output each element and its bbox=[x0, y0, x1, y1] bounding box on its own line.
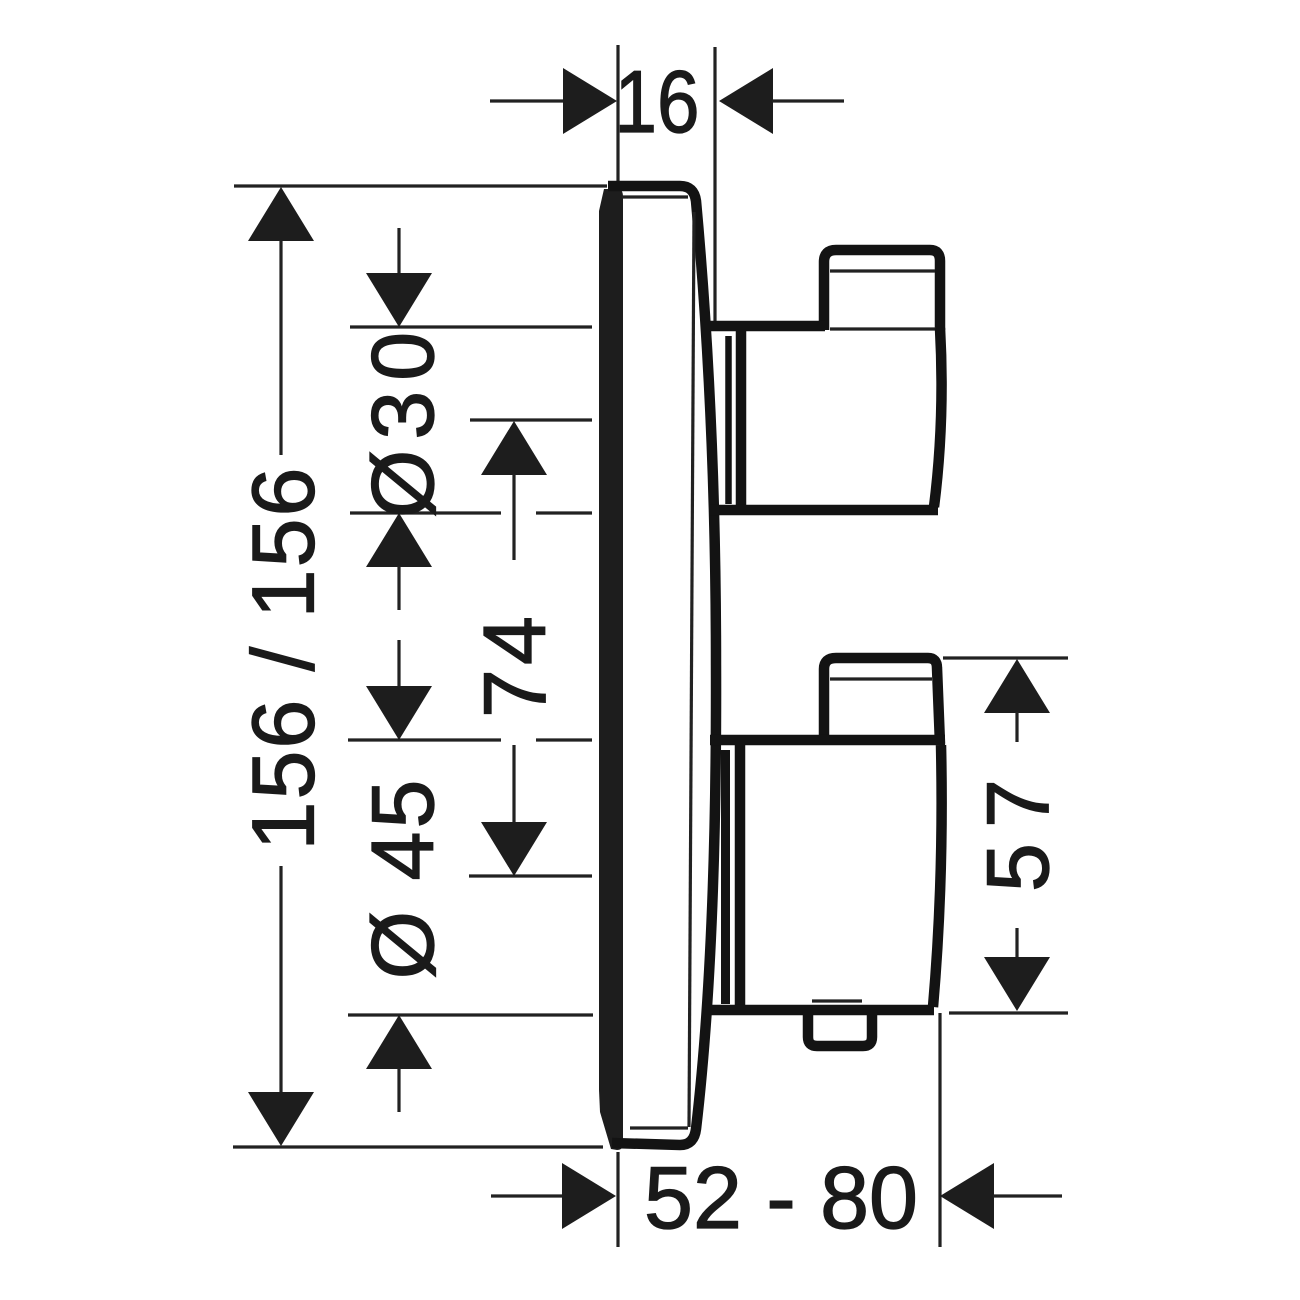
dim O45: bottom arrowhead bbox=[366, 1015, 432, 1069]
dim 52-80: right arrow tail bbox=[993, 1194, 1062, 1197]
dim O45: bottom arrow tail bbox=[397, 1068, 400, 1112]
dim O30: bottom boundary line (two segments) bbox=[350, 511, 592, 514]
dim 74: top boundary line bbox=[470, 418, 592, 421]
dim 57: bottom arrowhead bbox=[984, 957, 1050, 1011]
svg-text:156 / 156: 156 / 156 bbox=[234, 466, 333, 851]
dim 74: lower shaft bbox=[512, 745, 515, 823]
dim O45: bottom boundary line bbox=[348, 1013, 593, 1016]
top handle: body left edge bbox=[736, 331, 747, 506]
dim 52-80: left arrow tail bbox=[491, 1194, 563, 1197]
top handle: right edge bbox=[934, 328, 942, 507]
top handle: step outline bbox=[824, 250, 940, 330]
top handle: step inner thin line bbox=[830, 269, 935, 272]
dim 52-80: right extension line bbox=[938, 1013, 941, 1247]
dim 57: upper shaft bbox=[1015, 712, 1018, 742]
dim 74: upper shaft bbox=[512, 474, 515, 560]
top handle: neck thin line bbox=[725, 336, 732, 504]
bottom handle: right edge bbox=[933, 745, 942, 1007]
dim 156/156: upper shaft bbox=[279, 240, 282, 455]
dim 52-80: right arrowhead bbox=[940, 1163, 994, 1229]
dim O45: top boundary line (two segments) bbox=[348, 738, 592, 741]
bottom handle: body left edge bbox=[735, 745, 746, 1006]
dim O45: top arrow tail bbox=[397, 640, 400, 687]
bottom handle: neck thin line bbox=[721, 750, 730, 1004]
dim 52-80: left extension line bbox=[616, 1152, 619, 1247]
dim 16: left extension line bbox=[616, 45, 619, 181]
dim 16: right extension line bbox=[713, 47, 716, 327]
dim O30: top arrowhead bbox=[366, 273, 432, 327]
escutcheon plate: front face inner thin line bbox=[689, 212, 694, 1127]
dim 156/156: top arrowhead bbox=[248, 187, 314, 241]
dim 156/156: bottom extension line bbox=[233, 1145, 603, 1148]
dim 74: bottom arrowhead bbox=[481, 822, 547, 876]
escutcheon plate: inner thin line above bottom edge bbox=[630, 1126, 688, 1129]
top handle: body bottom edge bbox=[710, 505, 938, 516]
dim O30: bottom arrow tail bbox=[397, 566, 400, 610]
escutcheon plate: back rim band bbox=[599, 189, 623, 1150]
dim 74: bottom boundary line bbox=[469, 874, 592, 877]
svg-text:52 - 80: 52 - 80 bbox=[644, 1148, 918, 1247]
dim 74: top arrowhead bbox=[481, 421, 547, 475]
bottom handle: body bottom edge bbox=[710, 1005, 934, 1016]
dim O30: top arrow tail bbox=[397, 228, 400, 274]
dim 57: bottom boundary line bbox=[949, 1011, 1068, 1014]
dim 16: right arrow tail bbox=[772, 99, 844, 102]
bottom handle: detent bump line bbox=[812, 999, 862, 1002]
dim O30: top boundary line bbox=[350, 325, 592, 328]
dim 16: left arrow tail bbox=[490, 99, 564, 102]
dim 156/156: bottom arrowhead bbox=[248, 1092, 314, 1146]
bottom handle: step inner thin line bbox=[830, 677, 932, 680]
dim O45: top arrowhead bbox=[366, 686, 432, 740]
svg-text:74: 74 bbox=[465, 612, 564, 718]
dim 57: top arrowhead bbox=[984, 659, 1050, 713]
svg-text:Ø30: Ø30 bbox=[353, 322, 452, 518]
svg-text:Ø 45: Ø 45 bbox=[353, 777, 452, 980]
dim 16: right arrowhead bbox=[719, 68, 773, 134]
dim 57: lower shaft bbox=[1015, 928, 1018, 958]
top handle: body top edge bbox=[709, 321, 825, 332]
dim 57: top boundary line bbox=[943, 656, 1068, 659]
escutcheon plate: outer outline (top edge, bulged front edge, bottom edge) bbox=[608, 186, 716, 1145]
dim 156/156: top extension line bbox=[234, 184, 607, 187]
svg-text:57: 57 bbox=[968, 764, 1067, 892]
dim 156/156: lower shaft bbox=[279, 866, 282, 1093]
bottom handle: body top edge bbox=[710, 735, 945, 746]
dim 16: left arrowhead bbox=[563, 68, 617, 134]
dim O30: bottom arrowhead bbox=[366, 513, 432, 567]
bottom handle: step outline bbox=[824, 658, 940, 744]
dim 52-80: left arrowhead bbox=[562, 1163, 616, 1229]
top handle: thin line under step bbox=[830, 327, 936, 330]
bottom handle: bottom tab bbox=[808, 1012, 872, 1046]
escutcheon plate: inner thin line below top edge bbox=[622, 195, 688, 198]
svg-text:16: 16 bbox=[615, 52, 700, 151]
